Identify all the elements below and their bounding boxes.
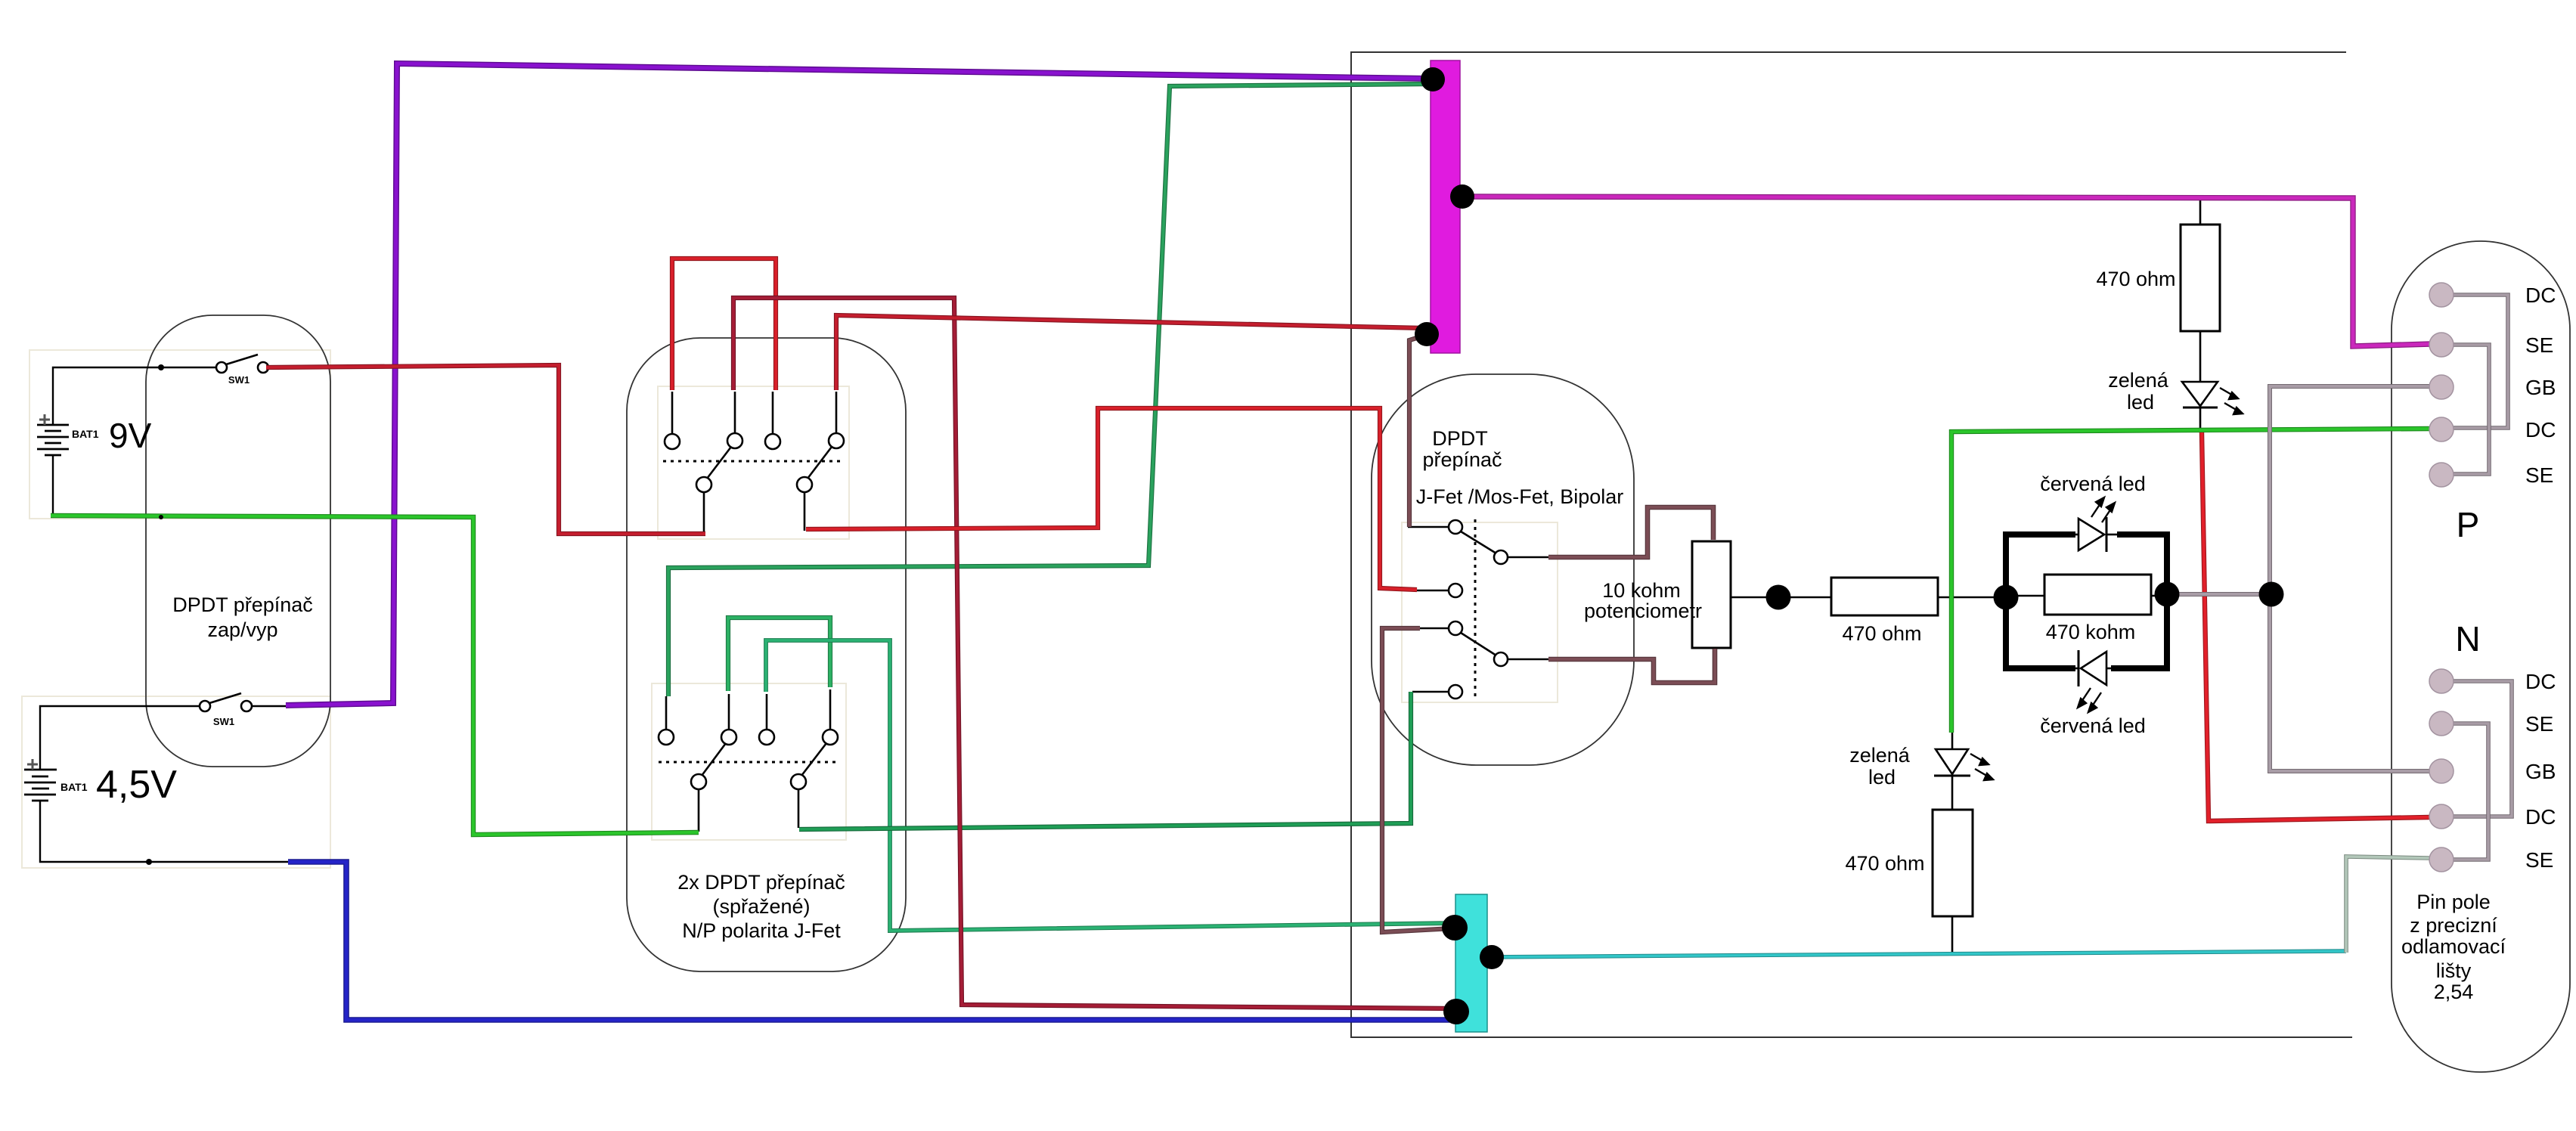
svg-text:lišty: lišty [2436,959,2472,982]
svg-text:červená led: červená led [2040,473,2146,495]
svg-text:10 kohm: 10 kohm [1602,579,1681,602]
svg-text:DC: DC [2525,284,2556,307]
svg-text:P: P [2457,505,2480,544]
svg-text:SW1: SW1 [213,716,234,727]
svg-text:2,54: 2,54 [2434,981,2474,1003]
svg-text:470 kohm: 470 kohm [2046,621,2136,643]
svg-text:přepínač: přepínač [1422,448,1502,471]
svg-text:SE: SE [2525,463,2553,487]
svg-text:červená led: červená led [2040,714,2146,737]
svg-text:zap/vyp: zap/vyp [207,618,277,641]
svg-text:BAT1: BAT1 [72,428,99,440]
svg-text:odlamovací: odlamovací [2401,935,2506,958]
svg-text:DPDT přepínač: DPDT přepínač [172,593,313,616]
svg-text:2x DPDT přepínač: 2x DPDT přepínač [677,871,845,894]
svg-text:GB: GB [2525,760,2556,783]
svg-text:SW1: SW1 [228,374,250,386]
svg-text:GB: GB [2525,376,2556,399]
svg-text:Pin pole: Pin pole [2416,891,2491,913]
svg-text:N: N [2455,619,2480,658]
svg-text:led: led [1868,766,1896,789]
svg-text:DC: DC [2525,805,2556,829]
svg-text:potenciometr: potenciometr [1584,600,1702,622]
svg-text:zelená: zelená [1849,744,1911,767]
svg-text:N/P polarita J-Fet: N/P polarita J-Fet [682,919,841,942]
svg-text:SE: SE [2525,333,2553,357]
svg-text:J-Fet /Mos-Fet, Bipolar: J-Fet /Mos-Fet, Bipolar [1416,485,1624,508]
svg-text:470 ohm: 470 ohm [1842,622,1921,645]
svg-text:DC: DC [2525,418,2556,442]
svg-text:DC: DC [2525,670,2556,693]
svg-text:z precizní: z precizní [2410,914,2497,937]
svg-text:zelená: zelená [2108,369,2169,392]
svg-text:(spřažené): (spřažené) [712,895,810,918]
svg-text:led: led [2127,391,2154,414]
svg-text:SE: SE [2525,712,2553,736]
svg-text:4,5V: 4,5V [96,763,177,807]
svg-text:470 ohm: 470 ohm [2096,268,2175,290]
svg-text:DPDT: DPDT [1432,427,1488,450]
svg-text:9V: 9V [109,416,152,455]
svg-text:BAT1: BAT1 [60,781,88,793]
svg-text:470 ohm: 470 ohm [1845,852,1924,875]
svg-text:SE: SE [2525,848,2553,872]
